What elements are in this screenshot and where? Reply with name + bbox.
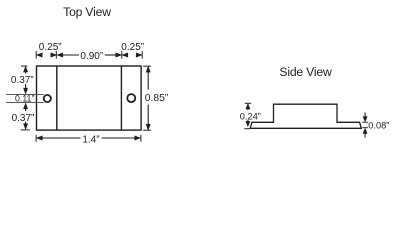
svg-text:Side View: Side View <box>279 65 332 79</box>
svg-text:0.37”: 0.37” <box>12 113 35 124</box>
extension ticks for top dimensions <box>36 51 142 59</box>
part outline: side-view profile <box>250 104 361 128</box>
node: hole tangent reference line upper <box>6 94 44 96</box>
part outline: top-view body rectangle <box>37 66 142 130</box>
dimension 0.24 inch: tick, arrows, label <box>245 102 252 104</box>
wire: right pad divider line <box>120 66 122 130</box>
hole: right mounting hole <box>127 94 135 102</box>
svg-text:0.25”: 0.25” <box>39 42 62 53</box>
svg-text:1.4”: 1.4” <box>82 134 99 145</box>
dimension 0.08 inch: ticks, arrows, label <box>362 122 368 128</box>
dimension 0.85 inch: extension ticks <box>143 66 151 130</box>
dimension 0.37 inch lower: arrows, label, tick <box>24 103 28 109</box>
dimension 0.90 inch: line and arrows <box>61 54 117 56</box>
dimension 1.4 inch: line and arrows <box>42 137 136 139</box>
svg-text:0.11”: 0.11” <box>15 93 34 103</box>
svg-text:0.85”: 0.85” <box>145 93 169 104</box>
dimension 0.25 inch right: arrows <box>122 53 142 57</box>
svg-text:0.08”: 0.08” <box>368 121 389 131</box>
svg-text:0.24”: 0.24” <box>240 112 261 122</box>
svg-text:0.37”: 0.37” <box>11 75 34 86</box>
node: hole tangent reference line lower <box>6 102 44 104</box>
hole: left mounting hole <box>44 95 51 102</box>
wire: left pad divider line <box>56 66 58 130</box>
dimension 0.85 inch: line and arrows <box>147 71 149 127</box>
svg-text:0.90”: 0.90” <box>80 51 103 62</box>
svg-text:Top View: Top View <box>63 5 111 19</box>
svg-text:0.25”: 0.25” <box>121 42 144 53</box>
dimension 0.37 inch upper: tick, arrows, label <box>21 65 27 67</box>
dimension 1.4 inch: extension ticks <box>36 135 141 142</box>
dimension 0.25 inch left: arrows <box>37 53 57 57</box>
